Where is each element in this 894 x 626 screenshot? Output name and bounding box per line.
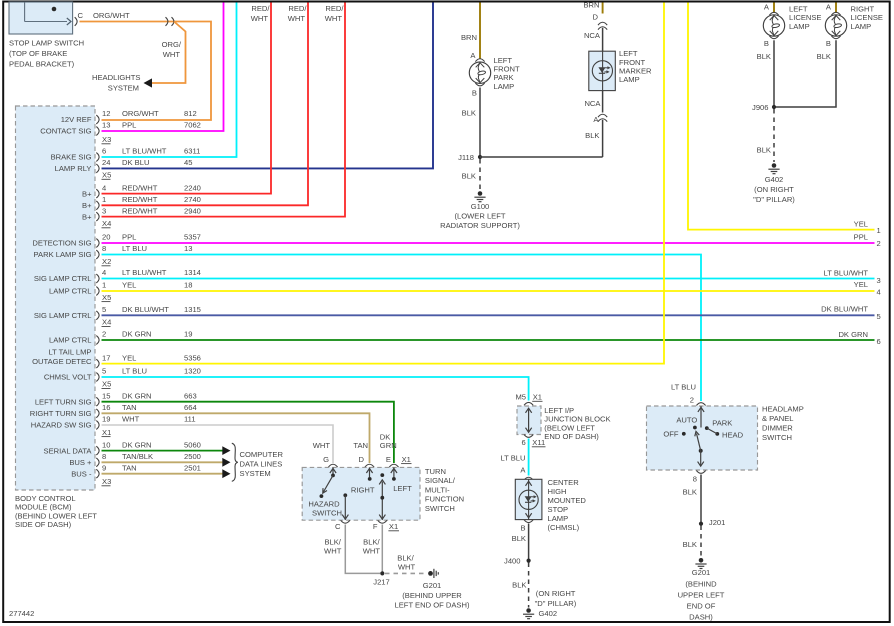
wire LT BLU/WHT 6311 pin6 to top xyxy=(102,3,237,158)
wire BLK left license lamp to J906 xyxy=(773,40,775,107)
svg-text:LAMP: LAMP xyxy=(789,22,810,31)
svg-text:5060: 5060 xyxy=(184,440,201,449)
svg-text:5: 5 xyxy=(877,312,881,321)
ground G100 xyxy=(478,191,483,196)
svg-text:D: D xyxy=(593,12,599,21)
svg-text:SIG LAMP CTRL: SIG LAMP CTRL xyxy=(34,311,92,320)
svg-text:MOUNTED: MOUNTED xyxy=(548,496,587,505)
svg-text:LT BLU: LT BLU xyxy=(122,244,147,253)
svg-text:"D" PILLAR): "D" PILLAR) xyxy=(535,599,577,608)
svg-text:& PANEL: & PANEL xyxy=(762,414,794,423)
svg-text:G201: G201 xyxy=(423,581,442,590)
svg-text:812: 812 xyxy=(184,109,197,118)
svg-text:18: 18 xyxy=(184,281,192,290)
svg-text:X1: X1 xyxy=(102,428,111,437)
svg-text:M5: M5 xyxy=(515,393,526,402)
right turn output contact to pin C xyxy=(342,493,348,519)
connector 8 below dimmer switch xyxy=(693,471,706,484)
svg-text:LT BLU: LT BLU xyxy=(500,454,525,463)
svg-text:BRN: BRN xyxy=(583,1,599,10)
wire NCA to marker lamp xyxy=(602,28,604,51)
svg-text:664: 664 xyxy=(184,403,197,412)
dashed wire BLK J906 to ground G402 xyxy=(773,109,775,162)
svg-text:FUNCTION: FUNCTION xyxy=(425,495,464,504)
svg-text:G100: G100 xyxy=(471,202,490,211)
svg-text:RED/: RED/ xyxy=(325,4,344,13)
svg-text:J906: J906 xyxy=(752,103,768,112)
svg-text:DK BLU/WHT: DK BLU/WHT xyxy=(122,305,169,314)
connector B at right license lamp xyxy=(826,36,841,48)
svg-text:CONTACT SIG: CONTACT SIG xyxy=(40,127,91,136)
headlamp and panel dimmer switch dashed box xyxy=(647,406,758,470)
svg-text:PEDAL BRACKET): PEDAL BRACKET) xyxy=(9,60,75,69)
svg-text:TURN: TURN xyxy=(425,467,446,476)
hazard switch label xyxy=(308,500,342,518)
ground G201 turn signal caption xyxy=(395,581,470,610)
inline connector on ORG/WHT wire xyxy=(166,17,174,26)
svg-text:UPPER LEFT: UPPER LEFT xyxy=(678,590,725,599)
left license lamp caption xyxy=(789,5,822,31)
svg-text:X5: X5 xyxy=(102,380,111,389)
connector C at stop lamp switch xyxy=(75,11,84,26)
svg-text:111: 111 xyxy=(184,415,196,424)
lamp right license lamp xyxy=(825,15,846,36)
svg-text:END OF DASH): END OF DASH) xyxy=(544,432,599,441)
svg-text:BLK: BLK xyxy=(585,131,599,140)
ground G201 dimmer xyxy=(699,558,704,563)
svg-text:(CHMSL): (CHMSL) xyxy=(548,523,580,532)
svg-text:277442: 277442 xyxy=(9,609,34,618)
svg-text:DASH): DASH) xyxy=(689,612,713,621)
svg-text:LAMP: LAMP xyxy=(619,75,640,84)
svg-text:(BEHIND UPPER: (BEHIND UPPER xyxy=(402,591,462,600)
junction J201 xyxy=(699,518,725,527)
svg-text:17: 17 xyxy=(102,353,110,362)
BCM pin 8 LT BLU (PARK LAMP SIG) xyxy=(34,244,193,259)
svg-text:WHT: WHT xyxy=(398,563,416,572)
BCM connector label X3 xyxy=(102,135,112,144)
svg-text:(ON RIGHT: (ON RIGHT xyxy=(754,185,794,194)
svg-text:NCA: NCA xyxy=(584,99,601,108)
svg-text:12V REF: 12V REF xyxy=(61,115,92,124)
dashed wire BLK/WHT J217 to ground G201 xyxy=(385,572,427,574)
svg-text:2500: 2500 xyxy=(184,452,201,461)
wire BRN stub to left license lamp xyxy=(773,3,775,14)
BCM pin 13 PPL (CONTACT SIG) xyxy=(40,121,201,136)
lamp E2 left front marker lamp xyxy=(589,51,616,90)
svg-text:LAMP RLY: LAMP RLY xyxy=(55,164,92,173)
wire TAN/BLK 2500 bus+ to computer data lines xyxy=(102,461,223,463)
svg-text:G: G xyxy=(323,455,329,464)
svg-text:ORG/: ORG/ xyxy=(162,40,182,49)
wire LT BLU/WHT 1314 pin4 to right edge xyxy=(102,278,875,280)
svg-text:WHT: WHT xyxy=(288,14,306,23)
wire BLK right license lamp to J906 xyxy=(774,40,836,107)
svg-text:SWITCH: SWITCH xyxy=(425,504,455,513)
svg-text:45: 45 xyxy=(184,158,192,167)
wire LT BLU junction block to CHMSL xyxy=(528,439,530,476)
label ORG/WHT on branch xyxy=(162,40,182,59)
connector B at left license lamp xyxy=(764,36,779,48)
svg-text:WHT: WHT xyxy=(122,415,140,424)
wire DK BLU/WHT 1315 pin5 to right edge xyxy=(102,314,875,316)
svg-text:5357: 5357 xyxy=(184,233,201,242)
svg-text:ORG/WHT: ORG/WHT xyxy=(93,11,130,20)
svg-text:STOP: STOP xyxy=(548,505,569,514)
BCM pin 9 TAN (BUS -) xyxy=(71,463,201,478)
wire RED/WHT 2740 pin1 to top xyxy=(102,3,309,206)
svg-text:LEFT TURN SIG: LEFT TURN SIG xyxy=(35,397,92,406)
svg-text:RIGHT: RIGHT xyxy=(351,485,375,494)
svg-text:G201: G201 xyxy=(692,568,711,577)
svg-text:DK BLU: DK BLU xyxy=(122,158,149,167)
svg-text:GRN: GRN xyxy=(380,441,397,450)
ground G402 on right D pillar xyxy=(772,163,777,168)
svg-text:SIDE OF DASH): SIDE OF DASH) xyxy=(15,520,72,529)
svg-text:LT BLU: LT BLU xyxy=(671,383,696,392)
dimmer switch internals xyxy=(682,406,719,466)
svg-text:MARKER: MARKER xyxy=(619,67,652,76)
svg-text:G402: G402 xyxy=(765,175,784,184)
svg-text:B+: B+ xyxy=(82,201,92,210)
svg-text:DK GRN: DK GRN xyxy=(122,391,152,400)
BCM connector label X4 xyxy=(102,219,112,228)
svg-text:SERIAL DATA: SERIAL DATA xyxy=(44,446,93,455)
svg-text:SYSTEM: SYSTEM xyxy=(108,84,139,93)
svg-text:LAMP: LAMP xyxy=(548,514,569,523)
labels RIGHT and LEFT xyxy=(351,484,412,494)
wire YEL 18 pin1 to right edge xyxy=(102,290,875,292)
ground G402 below CHMSL xyxy=(526,608,531,613)
BCM connector label X2 xyxy=(102,257,112,266)
connector D at marker lamp xyxy=(593,12,608,29)
turn signal / multi-function switch dashed box xyxy=(302,467,420,520)
svg-text:X1: X1 xyxy=(389,522,398,531)
svg-text:BLK: BLK xyxy=(512,534,526,543)
computer data lines brace and caption xyxy=(232,443,284,481)
svg-text:X3: X3 xyxy=(102,477,111,486)
svg-text:DETECTION SIG: DETECTION SIG xyxy=(32,239,91,248)
svg-text:SIG LAMP CTRL: SIG LAMP CTRL xyxy=(34,274,92,283)
junction J118 xyxy=(458,153,482,162)
svg-text:DK GRN: DK GRN xyxy=(122,440,152,449)
wire TAN 2501 bus- to computer data lines xyxy=(102,473,223,475)
svg-text:12: 12 xyxy=(102,109,110,118)
body control module BCM dashed box xyxy=(16,106,96,490)
wire BLK marker lamp to J118 xyxy=(602,120,604,157)
svg-text:RADIATOR SUPPORT): RADIATOR SUPPORT) xyxy=(440,221,520,230)
svg-text:LEFT END OF DASH): LEFT END OF DASH) xyxy=(395,601,470,610)
ground G402 CHMSL caption xyxy=(535,589,577,618)
BCM connector label X1 xyxy=(102,428,112,437)
svg-text:HEAD: HEAD xyxy=(722,430,744,439)
svg-text:PPL: PPL xyxy=(122,233,136,242)
BCM pin 1 RED/WHT (B+) xyxy=(82,195,201,210)
svg-text:LEFT: LEFT xyxy=(393,484,412,493)
svg-text:C: C xyxy=(78,11,84,20)
wire NCA below marker lamp xyxy=(602,91,604,113)
wire BLK J118 to marker lamp branch xyxy=(480,156,603,158)
svg-text:RED/WHT: RED/WHT xyxy=(122,206,158,215)
wire DK GRN 19 pin2 to right edge xyxy=(102,339,875,341)
dashed wire BLK J400 to ground G402 xyxy=(528,563,530,608)
svg-text:DK BLU/WHT: DK BLU/WHT xyxy=(821,305,868,314)
label BLK/WHT dashed at J217 xyxy=(397,554,415,572)
hazard switch contact xyxy=(320,467,337,498)
svg-text:3: 3 xyxy=(877,276,881,285)
wire PPL 5357 pin20 to right edge xyxy=(102,242,875,244)
svg-text:BODY CONTROL: BODY CONTROL xyxy=(15,494,76,503)
BCM caption xyxy=(15,494,97,529)
svg-text:9: 9 xyxy=(102,463,106,472)
wire LT BLU 1320 pin5 CHMSL to junction block xyxy=(102,377,529,401)
svg-text:X11: X11 xyxy=(532,438,545,447)
svg-text:1315: 1315 xyxy=(184,305,201,314)
svg-text:10: 10 xyxy=(102,440,110,449)
svg-text:6: 6 xyxy=(877,337,881,346)
label RED/WHT wire2 xyxy=(288,4,308,23)
dashed wire BLK J118 to ground G100 xyxy=(479,159,481,191)
wire ORG/WHT 812 from stop lamp switch to BCM pin 12 xyxy=(80,22,212,121)
svg-text:RED/WHT: RED/WHT xyxy=(122,195,158,204)
ground G201 dimmer caption xyxy=(678,568,725,621)
svg-text:DIMMER: DIMMER xyxy=(762,424,793,433)
svg-text:JUNCTION BLOCK: JUNCTION BLOCK xyxy=(544,415,610,424)
svg-text:8: 8 xyxy=(693,475,697,484)
svg-text:"D" PILLAR): "D" PILLAR) xyxy=(753,195,795,204)
svg-text:B: B xyxy=(826,39,831,48)
svg-text:LAMP: LAMP xyxy=(851,22,872,31)
BCM pin 5 LT BLU (CHMSL VOLT) xyxy=(44,367,201,382)
svg-text:LT BLU/WHT: LT BLU/WHT xyxy=(122,268,167,277)
svg-text:CHMSL VOLT: CHMSL VOLT xyxy=(44,373,92,382)
svg-text:B+: B+ xyxy=(82,212,92,221)
svg-text:RIGHT TURN SIG: RIGHT TURN SIG xyxy=(30,409,92,418)
svg-text:X4: X4 xyxy=(102,219,111,228)
svg-text:13: 13 xyxy=(102,121,110,130)
connector 2 at headlamp dimmer switch xyxy=(690,395,706,405)
svg-text:BLK: BLK xyxy=(757,52,771,61)
svg-text:BLK: BLK xyxy=(462,172,476,181)
wire TAN 664 pin16 to turn signal switch pin D xyxy=(102,413,370,463)
svg-text:PPL: PPL xyxy=(122,121,136,130)
svg-text:4: 4 xyxy=(877,288,881,297)
BCM pin 15 DK GRN (LEFT TURN SIG) xyxy=(35,391,197,406)
BCM pin 10 DK GRN (SERIAL DATA) xyxy=(44,440,201,455)
svg-text:WHT: WHT xyxy=(313,441,331,450)
wire BRN stub to right license lamp xyxy=(835,3,837,14)
svg-text:BLK: BLK xyxy=(757,146,771,155)
BCM pin 6 LT BLU/WHT (BRAKE SIG) xyxy=(51,147,201,162)
BCM pin 16 TAN (RIGHT TURN SIG) xyxy=(30,403,197,418)
BCM pin 12 ORG/WHT (12V REF) xyxy=(61,109,197,124)
svg-text:24: 24 xyxy=(102,158,110,167)
svg-text:LT TAIL LMP: LT TAIL LMP xyxy=(48,348,91,357)
svg-text:2940: 2940 xyxy=(184,206,201,215)
wire DK GRN 5060 serial data to computer data lines xyxy=(102,450,223,452)
connector A at right license lamp xyxy=(826,3,841,16)
svg-text:DK GRN: DK GRN xyxy=(122,330,152,339)
BCM connector label X4 xyxy=(102,318,112,327)
BCM connector label X5 xyxy=(102,380,112,389)
svg-text:BLK: BLK xyxy=(683,488,697,497)
BCM pin 4 RED/WHT (B+) xyxy=(82,183,201,198)
svg-text:YEL: YEL xyxy=(854,220,868,229)
wire LT BLU 13 pin8 to headlamp dimmer switch xyxy=(102,255,702,402)
svg-text:(BEHIND: (BEHIND xyxy=(685,579,717,588)
left turn contact pin E xyxy=(391,467,397,480)
wire BLK/WHT pin F to J217 xyxy=(381,525,383,574)
svg-text:19: 19 xyxy=(102,415,110,424)
wire BRN to left front park lamp xyxy=(479,3,481,59)
svg-text:WHT: WHT xyxy=(251,14,269,23)
wire BLK dimmer switch to J201 xyxy=(700,475,702,524)
label RED/WHT wire1 xyxy=(251,4,271,23)
svg-text:1: 1 xyxy=(877,226,881,235)
svg-text:7062: 7062 xyxy=(184,121,201,130)
connectors C F X1 below turn signal switch xyxy=(335,520,399,531)
svg-text:8: 8 xyxy=(102,452,106,461)
svg-text:20: 20 xyxy=(102,233,110,242)
svg-text:MODULE (BCM): MODULE (BCM) xyxy=(15,503,72,512)
svg-text:PARK: PARK xyxy=(712,418,732,427)
connector B at park lamp xyxy=(472,83,485,98)
wire RED/WHT 2940 pin3 to top xyxy=(102,3,346,217)
svg-text:J217: J217 xyxy=(373,578,389,587)
svg-text:SIGNAL/: SIGNAL/ xyxy=(425,476,456,485)
svg-text:2: 2 xyxy=(102,330,106,339)
svg-text:OFF: OFF xyxy=(663,429,679,438)
svg-text:2: 2 xyxy=(877,239,881,248)
svg-text:X5: X5 xyxy=(102,293,111,302)
svg-text:6: 6 xyxy=(102,147,106,156)
connectors G D E X1 at turn signal switch xyxy=(323,455,411,467)
left I/P junction block dashed box xyxy=(517,406,541,435)
svg-text:RED/: RED/ xyxy=(288,4,307,13)
svg-text:X2: X2 xyxy=(102,257,111,266)
turn signal switch caption xyxy=(425,467,464,513)
svg-text:COMPUTER: COMPUTER xyxy=(240,450,284,459)
svg-text:5356: 5356 xyxy=(184,353,201,362)
arrow to headlights system xyxy=(144,78,153,87)
wire BLK park lamp to J118 xyxy=(479,88,481,158)
svg-text:HEADLIGHTS: HEADLIGHTS xyxy=(92,73,141,82)
svg-text:BLK/: BLK/ xyxy=(324,538,341,547)
svg-text:BLK: BLK xyxy=(683,540,697,549)
wire DK BLU 45 pin24 to top xyxy=(102,3,434,169)
wire BLK CHMSL to J400 xyxy=(528,524,530,561)
svg-text:STOP LAMP SWITCH: STOP LAMP SWITCH xyxy=(9,39,84,48)
BCM pin 8 TAN/BLK (BUS +) xyxy=(69,452,201,467)
headlamp dimmer switch caption xyxy=(762,405,804,442)
svg-text:LEFT I/P: LEFT I/P xyxy=(544,406,574,415)
wire PPL 7062 pin13 to top xyxy=(102,3,224,132)
svg-text:SWITCH: SWITCH xyxy=(312,509,342,518)
svg-text:END OF: END OF xyxy=(687,601,716,610)
BCM pin 3 RED/WHT (B+) xyxy=(82,206,201,221)
svg-text:J201: J201 xyxy=(709,518,725,527)
dashed wire BLK J201 to ground G201 xyxy=(700,526,702,558)
svg-text:BUS +: BUS + xyxy=(69,458,92,467)
svg-text:2: 2 xyxy=(690,395,694,404)
svg-text:SYSTEM: SYSTEM xyxy=(240,469,271,478)
connector A at marker lamp xyxy=(593,114,607,124)
svg-text:B: B xyxy=(521,524,526,533)
svg-text:(BEHIND LOWER LEFT: (BEHIND LOWER LEFT xyxy=(15,511,97,520)
lamp E1 left front park lamp xyxy=(469,62,490,83)
junction J906 xyxy=(752,103,776,112)
lamp left license lamp xyxy=(763,15,784,36)
right turn contact pin D xyxy=(366,467,372,480)
svg-text:G402: G402 xyxy=(539,609,558,618)
svg-text:PPL: PPL xyxy=(854,233,868,242)
svg-text:BLK: BLK xyxy=(512,581,526,590)
svg-text:PARK LAMP SIG: PARK LAMP SIG xyxy=(34,250,92,259)
svg-text:TAN: TAN xyxy=(122,463,137,472)
svg-text:2501: 2501 xyxy=(184,463,201,472)
svg-text:(BELOW LEFT: (BELOW LEFT xyxy=(544,423,595,432)
svg-text:3: 3 xyxy=(102,206,106,215)
svg-text:C: C xyxy=(335,522,341,531)
BCM pin 20 PPL (DETECTION SIG) xyxy=(32,233,200,248)
svg-text:1: 1 xyxy=(102,195,106,204)
wire RED/WHT 2240 pin4 to top xyxy=(102,3,272,194)
svg-text:TAN: TAN xyxy=(122,403,137,412)
svg-text:663: 663 xyxy=(184,391,197,400)
stop lamp switch SW1 xyxy=(9,2,73,34)
BCM pin 5 DK BLU/WHT (SIG LAMP CTRL) xyxy=(34,305,201,320)
svg-text:2240: 2240 xyxy=(184,183,201,192)
svg-text:BUS -: BUS - xyxy=(71,469,92,478)
BCM pin 1 YEL (LAMP CTRL) xyxy=(49,281,192,296)
wire DK GRN 663 pin15 to turn signal switch pin E xyxy=(102,402,394,463)
dimmer switch position labels xyxy=(663,415,743,439)
svg-text:YEL: YEL xyxy=(122,281,136,290)
svg-text:SWITCH: SWITCH xyxy=(762,433,792,442)
junction J217 xyxy=(373,571,389,586)
svg-text:1320: 1320 xyxy=(184,367,201,376)
BCM pin 17 YEL (LT TAIL LMP/OUTAGE DETEC) xyxy=(32,348,201,368)
svg-text:WHT: WHT xyxy=(324,547,342,556)
svg-text:WHT: WHT xyxy=(325,14,343,23)
svg-text:X1: X1 xyxy=(402,455,411,464)
BCM pin 2 DK GRN (LAMP CTRL) xyxy=(49,330,192,345)
ground G201 sideways xyxy=(428,571,433,576)
svg-text:13: 13 xyxy=(184,244,192,253)
BCM pin 4 LT BLU/WHT (SIG LAMP CTRL) xyxy=(34,268,201,283)
svg-text:X5: X5 xyxy=(102,171,111,180)
svg-text:BRAKE SIG: BRAKE SIG xyxy=(51,153,92,162)
svg-text:(TOP OF BRAKE: (TOP OF BRAKE xyxy=(9,49,67,58)
label BLK/WHT at C xyxy=(324,538,342,556)
right license lamp caption xyxy=(851,5,884,31)
junction J400 xyxy=(504,556,531,565)
svg-text:OUTAGE DETEC: OUTAGE DETEC xyxy=(32,357,92,366)
lamp CHMSL center high mounted stop lamp xyxy=(515,479,542,519)
svg-text:16: 16 xyxy=(102,403,110,412)
svg-text:LAMP CTRL: LAMP CTRL xyxy=(49,336,91,345)
svg-text:BLK/: BLK/ xyxy=(397,554,414,563)
ground G100 caption xyxy=(440,202,520,230)
svg-text:8: 8 xyxy=(102,244,106,253)
right edge wire labels and numbers xyxy=(821,220,881,347)
headlights system caption xyxy=(92,73,141,93)
labels WHT TAN DK GRN above turn signal switch xyxy=(313,441,368,450)
svg-text:RED/: RED/ xyxy=(251,4,270,13)
svg-text:4: 4 xyxy=(102,183,106,192)
BCM connector label X5 xyxy=(102,293,112,302)
connector B at CHMSL xyxy=(521,520,534,533)
